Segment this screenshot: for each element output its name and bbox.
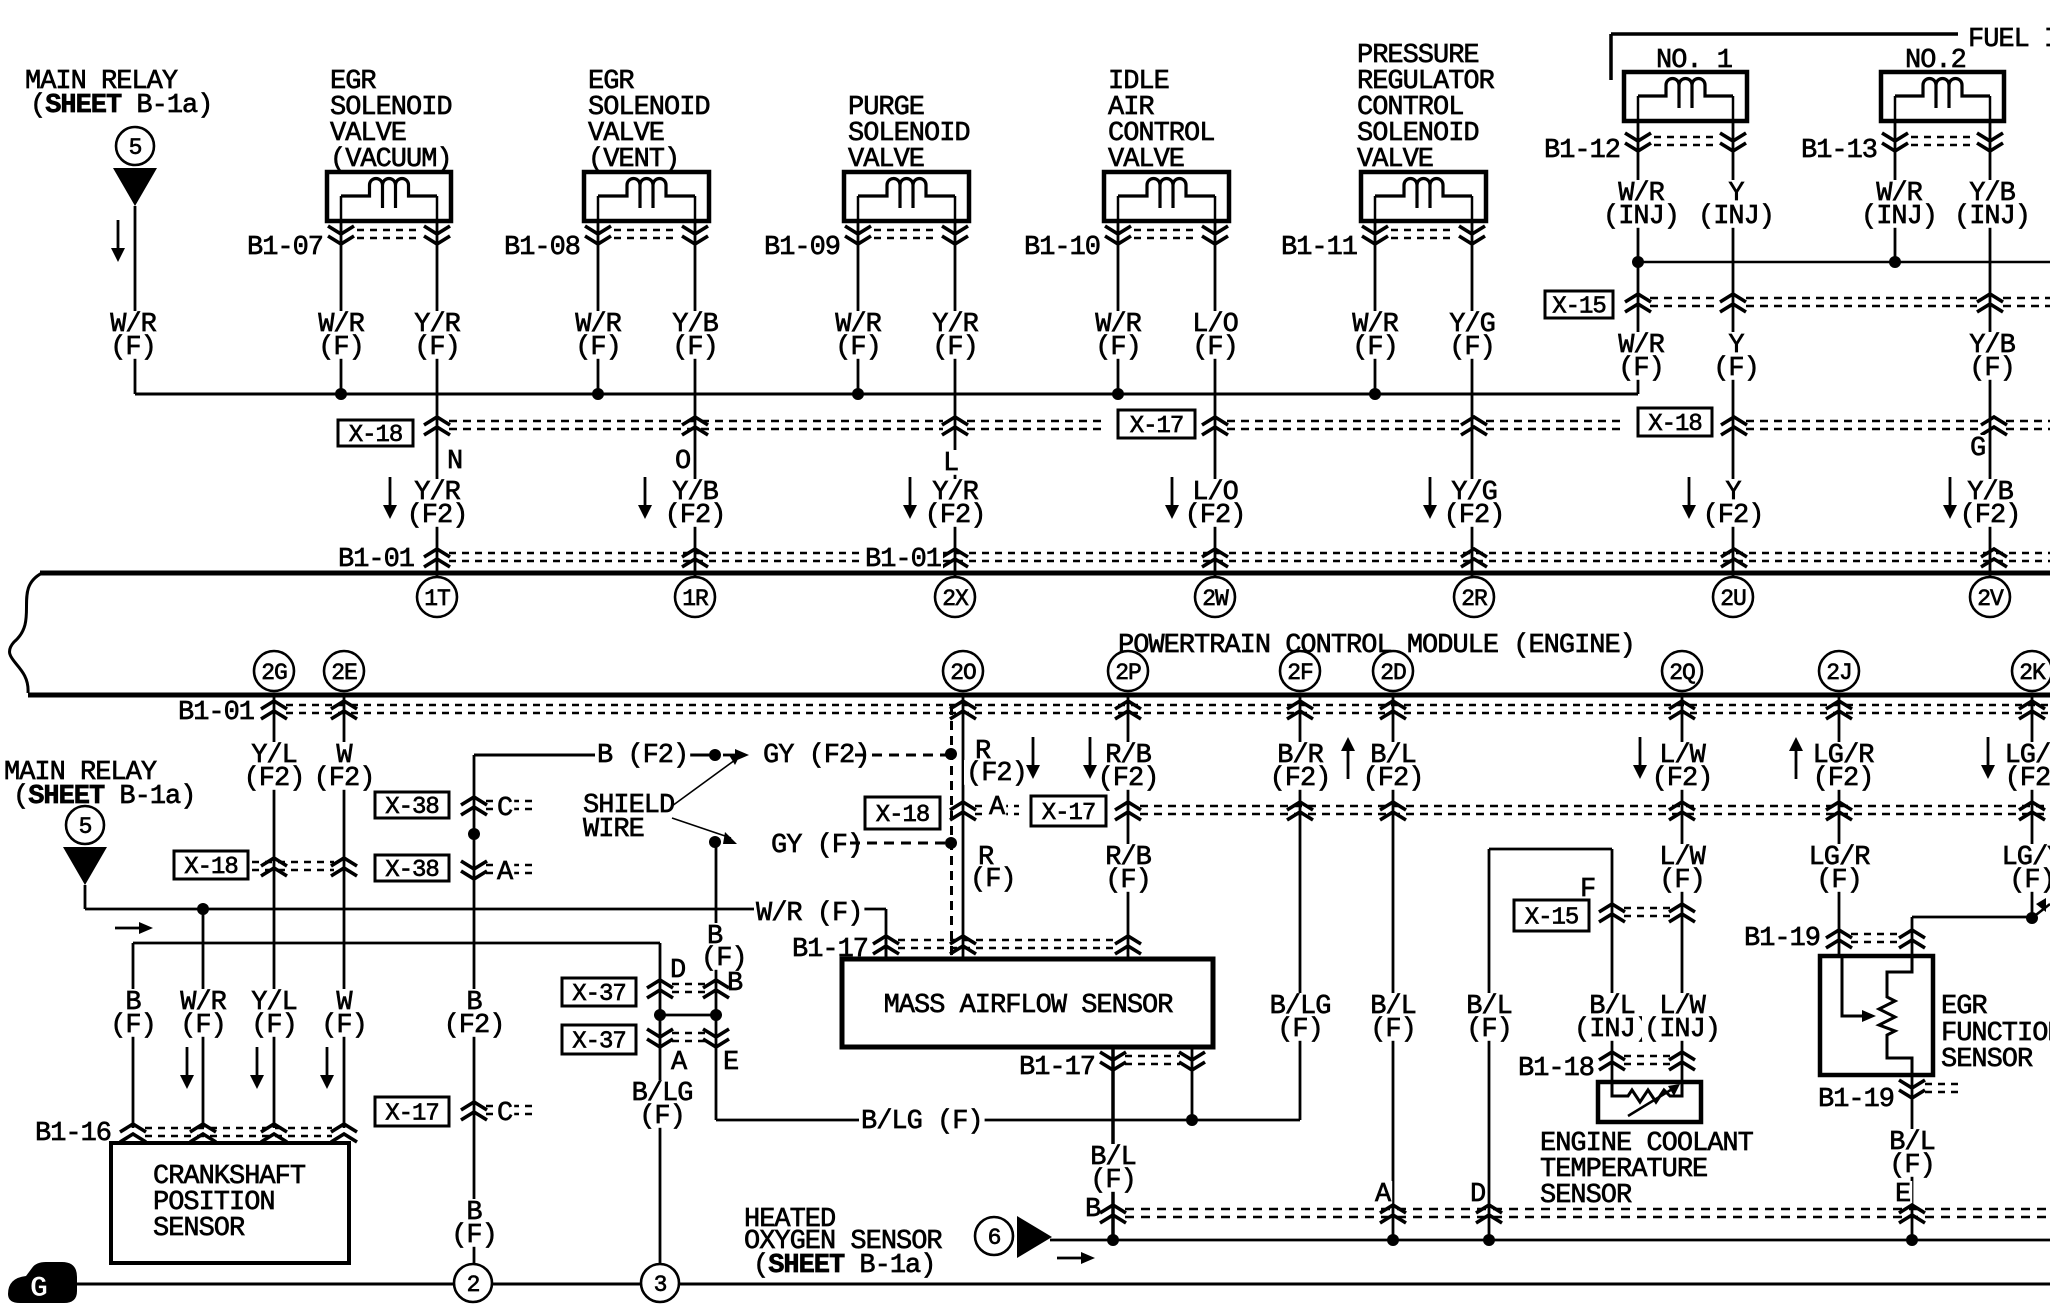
- svg-text:B1-18: B1-18: [1518, 1054, 1594, 1084]
- svg-text:B/LG (F): B/LG (F): [861, 1107, 983, 1137]
- svg-text:B1-09: B1-09: [764, 233, 840, 263]
- svg-text:A: A: [989, 793, 1006, 823]
- svg-text:(F2): (F2): [1960, 501, 2021, 531]
- svg-text:A: A: [497, 858, 514, 888]
- svg-text:B1-01: B1-01: [178, 698, 254, 728]
- svg-text:(F): (F): [451, 1221, 497, 1251]
- svg-text:1T: 1T: [424, 586, 450, 612]
- svg-text:2W: 2W: [1202, 586, 1229, 612]
- svg-text:(F): (F): [318, 333, 364, 363]
- svg-text:(F): (F): [1713, 354, 1759, 384]
- svg-text:2J: 2J: [1826, 660, 1852, 686]
- svg-text:2V: 2V: [1977, 586, 2004, 612]
- svg-text:(F2): (F2): [314, 764, 375, 794]
- svg-text:EGR: EGR: [1941, 992, 1987, 1022]
- svg-text:(F2): (F2): [966, 759, 1027, 789]
- svg-text:3: 3: [654, 1272, 667, 1298]
- svg-text:C: C: [497, 1099, 513, 1129]
- svg-text:2P: 2P: [1115, 660, 1141, 686]
- svg-text:(F): (F): [639, 1102, 685, 1132]
- svg-text:D: D: [1470, 1180, 1485, 1210]
- svg-text:(F2): (F2): [1098, 764, 1159, 794]
- svg-text:(INJ): (INJ): [1954, 202, 2030, 232]
- svg-text:(F): (F): [701, 944, 747, 974]
- svg-text:(F2): (F2): [407, 501, 468, 531]
- svg-text:(INJ): (INJ): [1603, 202, 1679, 232]
- svg-text:X-38: X-38: [385, 857, 439, 884]
- svg-text:(INJ): (INJ): [1574, 1015, 1650, 1045]
- svg-text:(F): (F): [575, 333, 621, 363]
- svg-text:2G: 2G: [261, 660, 287, 686]
- svg-text:E: E: [723, 1048, 738, 1078]
- svg-text:B1-13: B1-13: [1801, 136, 1877, 166]
- svg-text:B1-10: B1-10: [1024, 233, 1100, 263]
- svg-text:(F): (F): [1105, 866, 1151, 896]
- svg-text:(F2): (F2): [1444, 501, 1505, 531]
- svg-text:X-17: X-17: [1130, 413, 1184, 440]
- svg-text:B1-08: B1-08: [504, 233, 580, 263]
- svg-text:(F): (F): [321, 1011, 367, 1041]
- svg-text:(F2): (F2): [1185, 501, 1246, 531]
- svg-text:(F): (F): [110, 1011, 156, 1041]
- svg-text:B1-11: B1-11: [1281, 233, 1357, 263]
- svg-text:(F): (F): [835, 333, 881, 363]
- svg-text:5: 5: [129, 135, 142, 161]
- svg-text:2U: 2U: [1720, 586, 1746, 612]
- svg-text:L: L: [943, 449, 958, 479]
- svg-text:B1-19: B1-19: [1818, 1085, 1894, 1115]
- svg-text:X-18: X-18: [184, 854, 238, 881]
- svg-text:(F2): (F2): [444, 1011, 505, 1041]
- svg-text:1R: 1R: [682, 586, 709, 612]
- svg-text:X-15: X-15: [1552, 294, 1606, 321]
- svg-text:2F: 2F: [1287, 660, 1313, 686]
- svg-text:X-17: X-17: [385, 1101, 439, 1128]
- svg-text:B1-07: B1-07: [247, 233, 323, 263]
- svg-text:B1-17: B1-17: [1019, 1053, 1095, 1083]
- svg-text:(F): (F): [1889, 1151, 1935, 1181]
- svg-text:X-38: X-38: [385, 794, 439, 821]
- svg-text:X-18: X-18: [876, 802, 930, 829]
- svg-text:(F): (F): [932, 333, 978, 363]
- svg-text:(INJ): (INJ): [1644, 1015, 1720, 1045]
- svg-text:(F2): (F2): [1652, 764, 1713, 794]
- svg-text:O: O: [675, 447, 690, 477]
- svg-text:(SHEET B-1a): (SHEET B-1a): [13, 782, 195, 812]
- svg-text:2Q: 2Q: [1669, 660, 1695, 686]
- svg-text:MASS AIRFLOW SENSOR: MASS AIRFLOW SENSOR: [884, 991, 1174, 1021]
- svg-text:(F): (F): [1969, 354, 2015, 384]
- svg-text:(F): (F): [1192, 333, 1238, 363]
- svg-text:X-37: X-37: [572, 981, 626, 1008]
- svg-text:SENSOR: SENSOR: [153, 1214, 245, 1244]
- svg-text:2: 2: [467, 1272, 480, 1298]
- svg-text:SENSOR: SENSOR: [1540, 1181, 1632, 1211]
- svg-text:2K: 2K: [2019, 660, 2046, 686]
- svg-text:(F2): (F2): [925, 501, 986, 531]
- svg-text:G: G: [30, 1272, 48, 1306]
- svg-text:(F): (F): [1466, 1015, 1512, 1045]
- svg-text:(F2): (F2): [1813, 764, 1874, 794]
- svg-text:2R: 2R: [1461, 586, 1488, 612]
- svg-text:(F): (F): [180, 1011, 226, 1041]
- svg-text:G: G: [1970, 434, 1985, 464]
- svg-text:(INJ): (INJ): [1698, 202, 1774, 232]
- svg-text:FUEL IN: FUEL IN: [1968, 25, 2050, 55]
- svg-text:(F2): (F2): [665, 501, 726, 531]
- svg-text:B: B: [1085, 1195, 1101, 1225]
- svg-text:(F): (F): [1370, 1015, 1416, 1045]
- svg-text:5: 5: [79, 814, 92, 840]
- svg-text:(F): (F): [1277, 1015, 1323, 1045]
- svg-text:B1-12: B1-12: [1544, 136, 1620, 166]
- svg-text:(F): (F): [414, 333, 460, 363]
- svg-text:6: 6: [988, 1225, 1001, 1251]
- svg-text:B1-19: B1-19: [1744, 924, 1820, 954]
- svg-text:X-18: X-18: [349, 422, 403, 449]
- svg-text:X-37: X-37: [572, 1029, 626, 1056]
- svg-text:2D: 2D: [1380, 660, 1406, 686]
- svg-text:C: C: [497, 794, 513, 824]
- svg-text:(F2): (F2): [2005, 764, 2050, 794]
- svg-text:POWERTRAIN CONTROL MODULE (ENG: POWERTRAIN CONTROL MODULE (ENGINE): [1118, 631, 1635, 661]
- svg-text:D: D: [670, 956, 685, 986]
- svg-text:(F): (F): [672, 333, 718, 363]
- svg-text:(F): (F): [251, 1011, 297, 1041]
- svg-text:(F2): (F2): [1703, 501, 1764, 531]
- svg-text:N: N: [447, 447, 462, 477]
- svg-text:W/R (F): W/R (F): [756, 899, 862, 929]
- svg-text:(F): (F): [970, 865, 1016, 895]
- svg-text:(F2): (F2): [1363, 764, 1424, 794]
- svg-text:WIRE: WIRE: [583, 815, 644, 845]
- svg-text:GY (F): GY (F): [771, 831, 862, 861]
- svg-text:(F): (F): [1449, 333, 1495, 363]
- svg-text:(SHEET B-1a): (SHEET B-1a): [753, 1251, 935, 1281]
- svg-text:(F): (F): [2009, 866, 2050, 896]
- svg-text:(F): (F): [1816, 866, 1862, 896]
- svg-text:(F): (F): [110, 333, 156, 363]
- svg-text:(INJ): (INJ): [1861, 202, 1937, 232]
- svg-text:B1-16: B1-16: [35, 1119, 111, 1149]
- svg-text:(SHEET B-1a): (SHEET B-1a): [30, 91, 212, 121]
- svg-text:X-17: X-17: [1042, 800, 1096, 827]
- svg-text:2O: 2O: [950, 660, 976, 686]
- svg-text:B (F2): B (F2): [597, 741, 688, 771]
- svg-text:(F): (F): [1095, 333, 1141, 363]
- svg-text:SENSOR: SENSOR: [1941, 1045, 2033, 1075]
- svg-text:2X: 2X: [942, 586, 969, 612]
- svg-text:(F): (F): [1090, 1166, 1136, 1196]
- svg-text:GY (F2): GY (F2): [763, 741, 869, 771]
- svg-text:X-15: X-15: [1525, 905, 1579, 932]
- svg-text:A: A: [671, 1048, 688, 1078]
- svg-text:(F2): (F2): [244, 764, 305, 794]
- svg-text:(F): (F): [1352, 333, 1398, 363]
- svg-text:(F2): (F2): [1270, 764, 1331, 794]
- svg-text:X-18: X-18: [1648, 411, 1702, 438]
- svg-text:(F): (F): [1659, 866, 1705, 896]
- svg-text:(F): (F): [1618, 354, 1664, 384]
- svg-text:2E: 2E: [331, 660, 357, 686]
